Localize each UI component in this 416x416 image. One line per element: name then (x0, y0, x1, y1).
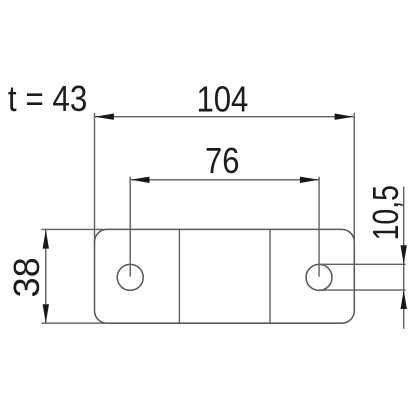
inner edge line left (178, 230, 180, 323)
dimension line 76 (131, 179, 319, 181)
arrowhead 10,5 down (above top tangent) (401, 245, 407, 264)
svg-text:38: 38 (6, 257, 47, 297)
extension line left for dim 76 (to left hole center) (129, 177, 131, 277)
dimension line 104 (95, 116, 354, 118)
hole left (117, 264, 143, 290)
dimension line 38 (45, 230, 47, 323)
svg-text:76: 76 (205, 141, 239, 182)
arrowhead 104 left (95, 114, 114, 120)
arrowhead 76 right (300, 177, 319, 183)
svg-text:t = 43: t = 43 (8, 79, 87, 120)
arrowhead 38 top (43, 230, 49, 249)
arrowhead 76 left (131, 177, 150, 183)
tangent line top of right hole for dim 10,5 (319, 263, 406, 265)
extension line bottom for dim 38 (plate bottom edge extended left) (42, 322, 111, 324)
arrowhead 104 right (335, 114, 354, 120)
svg-text:10,5: 10,5 (364, 185, 405, 240)
dimension line 10,5 (403, 187, 405, 329)
extension line left for dim 104 (94, 113, 96, 243)
inner edge line right (269, 230, 271, 323)
tangent line bottom of right hole for dim 10,5 (319, 289, 406, 291)
extension line right for dim 76 (to right hole center) (318, 177, 320, 277)
extension line right for dim 104 (353, 113, 355, 243)
plate outline (rounded rectangle body) (95, 229, 355, 323)
hole right (306, 264, 332, 290)
extension line top for dim 38 (plate top edge extended left) (42, 228, 111, 230)
svg-text:104: 104 (196, 79, 248, 120)
arrowhead 38 bottom (43, 304, 49, 323)
arrowhead 10,5 up (below bottom tangent) (401, 290, 407, 309)
